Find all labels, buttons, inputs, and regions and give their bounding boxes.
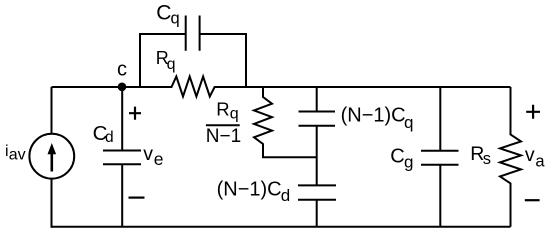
svg-text:c: c (117, 59, 127, 81)
svg-text:q: q (404, 113, 413, 132)
svg-text:C: C (390, 145, 404, 167)
svg-text:s: s (483, 150, 491, 168)
svg-text:g: g (404, 153, 413, 172)
svg-text:q: q (171, 10, 180, 28)
svg-text:d: d (281, 186, 290, 205)
svg-text:a: a (535, 152, 545, 170)
svg-text:d: d (105, 129, 114, 146)
svg-text:q: q (167, 56, 176, 73)
svg-text:q: q (230, 106, 239, 123)
svg-text:av: av (9, 147, 26, 164)
svg-text:(N−1)C: (N−1)C (341, 104, 406, 126)
svg-text:(N−1)C: (N−1)C (217, 178, 282, 200)
svg-text:v: v (143, 143, 153, 165)
svg-text:N−1: N−1 (206, 126, 241, 147)
svg-text:C: C (156, 1, 171, 24)
svg-text:R: R (216, 98, 229, 119)
svg-text:e: e (154, 149, 164, 169)
svg-text:v: v (525, 144, 535, 166)
